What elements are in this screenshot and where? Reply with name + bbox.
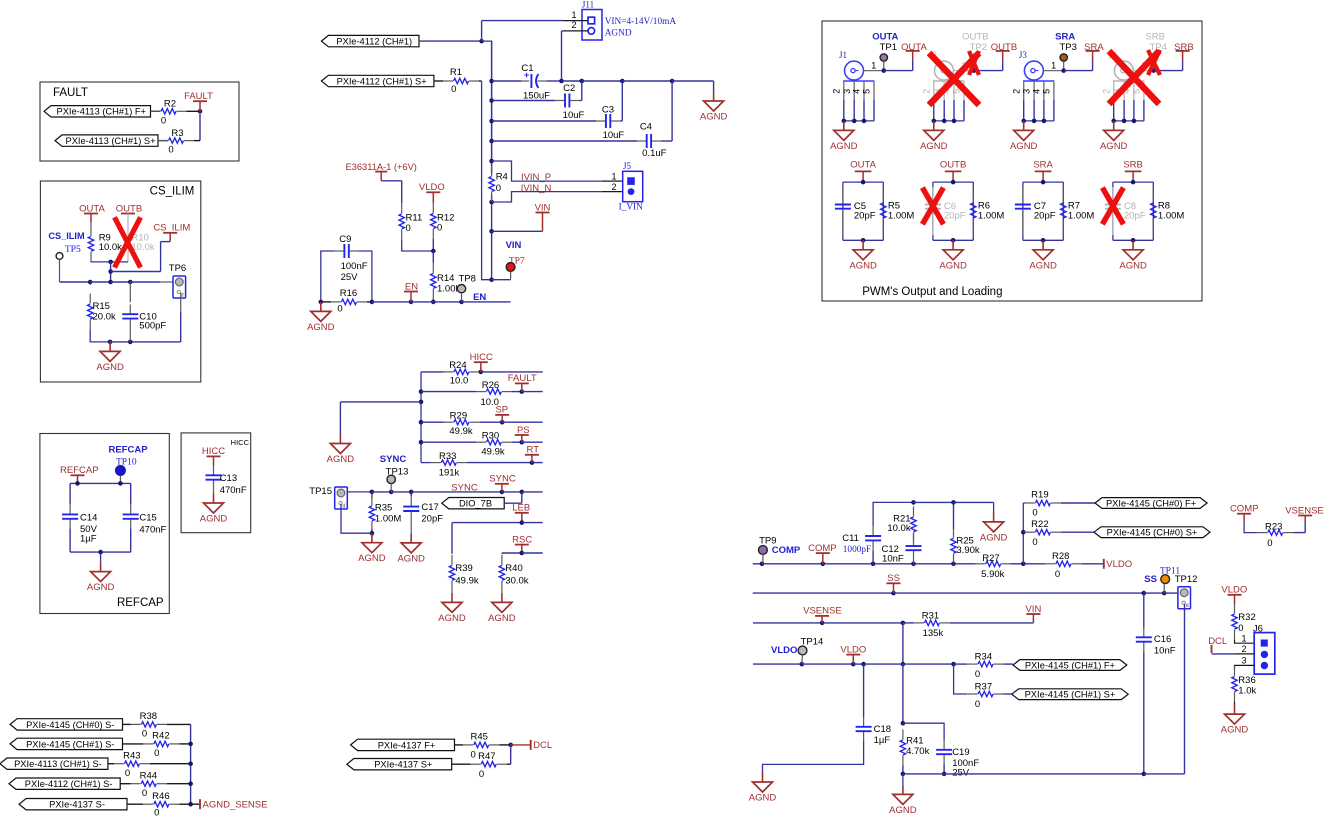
svg-text:C11: C11 xyxy=(842,533,859,544)
svg-text:C18: C18 xyxy=(874,724,891,735)
svg-text:PXIe-4145 (CH#0) S+: PXIe-4145 (CH#0) S+ xyxy=(1107,528,1198,538)
red X (not installed) xyxy=(1109,51,1159,104)
wire xyxy=(90,281,110,283)
svg-text:10nF: 10nF xyxy=(1154,646,1176,657)
wire xyxy=(70,482,131,484)
svg-text:AGND: AGND xyxy=(920,141,948,152)
wire xyxy=(883,61,885,70)
wire xyxy=(179,743,190,745)
junction xyxy=(882,68,887,73)
junction xyxy=(431,249,436,254)
port DCL xyxy=(530,740,532,750)
wire xyxy=(872,550,874,564)
junction xyxy=(520,520,525,525)
ground AGND xyxy=(410,533,412,543)
junction xyxy=(319,300,324,305)
junction xyxy=(1142,772,1147,777)
wire xyxy=(1304,521,1306,533)
wire xyxy=(953,502,955,529)
svg-text:R24: R24 xyxy=(449,360,466,371)
wire xyxy=(127,261,129,263)
wire xyxy=(1061,531,1094,533)
resistor R21 xyxy=(913,506,915,516)
wire xyxy=(123,743,144,745)
wire xyxy=(321,251,335,302)
svg-text:1.00M: 1.00M xyxy=(1068,211,1094,222)
svg-text:C17: C17 xyxy=(421,502,438,513)
wire xyxy=(347,491,372,493)
wire xyxy=(582,80,623,82)
wire xyxy=(179,803,190,805)
svg-text:R33: R33 xyxy=(439,451,456,462)
wire xyxy=(455,744,464,746)
junction xyxy=(419,400,424,405)
junction xyxy=(951,500,956,505)
wire xyxy=(823,563,873,565)
wire xyxy=(579,100,582,102)
junction xyxy=(851,662,856,667)
svg-text:HICC: HICC xyxy=(231,438,250,447)
wire xyxy=(853,663,863,665)
junction xyxy=(188,802,193,807)
svg-text:470nF: 470nF xyxy=(139,524,166,535)
pin 5 J2 xyxy=(963,81,965,100)
svg-text:0: 0 xyxy=(479,769,484,780)
junction xyxy=(1131,238,1136,243)
wire xyxy=(187,110,201,112)
svg-text:R36: R36 xyxy=(1238,675,1255,686)
svg-text:3: 3 xyxy=(1241,655,1246,665)
svg-text:C3: C3 xyxy=(602,104,614,115)
junction xyxy=(459,300,464,305)
resistor R43 xyxy=(114,763,124,765)
ground AGND xyxy=(762,773,764,783)
wire xyxy=(127,803,143,805)
wire xyxy=(130,483,132,504)
wire xyxy=(492,80,522,82)
resistor R29 xyxy=(443,421,453,423)
wire xyxy=(914,563,954,565)
svg-text:PXIe-4113 (CH#1) S-: PXIe-4113 (CH#1) S- xyxy=(14,759,102,769)
junction xyxy=(500,420,505,425)
wire xyxy=(120,783,131,785)
wire xyxy=(123,723,131,725)
svg-text:AGND: AGND xyxy=(200,514,228,525)
wire xyxy=(912,60,914,70)
wire xyxy=(511,744,531,746)
wire xyxy=(371,529,373,533)
svg-text:R44: R44 xyxy=(140,771,157,782)
pin 1 J1 xyxy=(864,70,884,72)
wire xyxy=(1023,563,1045,565)
wire xyxy=(542,213,544,232)
svg-text:PXIe-4145 (CH#0) F+: PXIe-4145 (CH#0) F+ xyxy=(1106,498,1196,508)
junction xyxy=(972,68,977,73)
svg-text:R2: R2 xyxy=(164,98,176,109)
wire xyxy=(1144,773,1185,775)
junction xyxy=(75,481,80,486)
svg-text:3.90k: 3.90k xyxy=(956,545,979,556)
wire xyxy=(522,522,543,524)
red X (not installed) xyxy=(1102,188,1123,225)
ground AGND xyxy=(713,92,715,102)
svg-text:R14: R14 xyxy=(437,273,454,284)
svg-text:10uF: 10uF xyxy=(563,110,585,121)
capacitor C1 (polarized) xyxy=(521,80,529,82)
resistor R1 xyxy=(443,80,453,82)
pin 2 J11 xyxy=(563,30,588,32)
junction xyxy=(1162,591,1167,596)
capacitor C13 xyxy=(213,466,215,476)
wire xyxy=(950,622,1034,624)
junction xyxy=(520,490,525,495)
svg-text:PXIe-4112 (CH#1): PXIe-4112 (CH#1) xyxy=(336,37,412,47)
ground AGND xyxy=(1023,121,1025,130)
svg-text:5: 5 xyxy=(1042,89,1052,94)
wire xyxy=(499,744,511,746)
resistor R37 xyxy=(968,693,978,695)
wire xyxy=(1022,503,1024,564)
junction xyxy=(901,662,906,667)
junction xyxy=(128,340,133,345)
junction xyxy=(419,389,424,394)
wire xyxy=(410,521,412,534)
svg-text:1.00M: 1.00M xyxy=(888,211,914,222)
junction xyxy=(108,260,113,265)
ground AGND xyxy=(993,502,995,512)
wire xyxy=(452,763,471,765)
wire xyxy=(893,583,895,593)
wire xyxy=(1164,592,1178,594)
junction xyxy=(951,238,956,243)
wire xyxy=(371,492,373,498)
svg-text:PXIe-4137 S+: PXIe-4137 S+ xyxy=(374,760,432,770)
ground AGND xyxy=(371,533,373,543)
svg-text:J11: J11 xyxy=(582,0,594,10)
wire xyxy=(199,111,201,140)
svg-text:AGND: AGND xyxy=(327,454,355,465)
wire xyxy=(401,181,403,204)
svg-text:R41: R41 xyxy=(906,736,923,747)
ground AGND xyxy=(843,121,845,130)
svg-text:0: 0 xyxy=(154,748,159,759)
svg-text:5: 5 xyxy=(1132,89,1142,94)
wire xyxy=(510,745,512,764)
svg-text:REFCAP: REFCAP xyxy=(108,445,148,456)
svg-text:20pF: 20pF xyxy=(1124,211,1146,222)
off-page connector PXIe-4113 (CH#1) S+ xyxy=(55,135,158,146)
wire xyxy=(481,371,543,373)
wire xyxy=(894,592,1144,594)
svg-text:SRB: SRB xyxy=(1145,32,1165,43)
junction xyxy=(1041,180,1046,185)
wire xyxy=(602,180,623,182)
wire xyxy=(562,80,582,82)
svg-text:C1: C1 xyxy=(521,63,533,74)
svg-text:VIN=4-14V/10mA: VIN=4-14V/10mA xyxy=(605,17,677,27)
svg-text:3: 3 xyxy=(842,89,852,94)
svg-text:R23: R23 xyxy=(1265,522,1282,533)
junction xyxy=(1041,238,1046,243)
svg-text:VIN: VIN xyxy=(506,240,522,251)
red X (not installed) xyxy=(1148,50,1160,75)
wire xyxy=(852,655,854,665)
wire xyxy=(1153,61,1155,70)
pin 5 J4 xyxy=(1143,81,1145,100)
wire xyxy=(1092,60,1094,70)
svg-text:R46: R46 xyxy=(152,791,169,802)
resistor R28 xyxy=(1045,563,1055,565)
junction xyxy=(409,300,414,305)
resistor R30 xyxy=(476,441,486,443)
wire xyxy=(1063,61,1065,70)
block border HICC xyxy=(181,433,251,533)
capacitor C3 xyxy=(596,120,606,122)
svg-text:R4: R4 xyxy=(496,172,508,183)
svg-text:AGND: AGND xyxy=(605,28,632,38)
off-page connector DIO_7B xyxy=(442,498,504,509)
svg-text:0: 0 xyxy=(337,304,342,315)
svg-text:IVIN_N: IVIN_N xyxy=(521,183,552,194)
off-page connector PXIe-4137 S+ xyxy=(347,759,452,770)
pin 1 J4 xyxy=(1133,70,1153,72)
wire xyxy=(873,502,913,526)
wire xyxy=(944,773,1144,775)
svg-text:191k: 191k xyxy=(439,468,460,479)
wire xyxy=(1023,531,1025,533)
svg-text:1.0k: 1.0k xyxy=(1238,686,1256,697)
ground AGND xyxy=(339,434,341,444)
svg-text:OUTB: OUTB xyxy=(940,160,966,171)
svg-text:C15: C15 xyxy=(139,512,156,523)
resistor R6 xyxy=(972,187,974,202)
wire xyxy=(411,491,502,493)
resistor R22 xyxy=(1025,531,1035,533)
wire xyxy=(160,281,176,283)
wire xyxy=(903,663,954,665)
wire xyxy=(581,81,583,101)
svg-text:AGND: AGND xyxy=(1010,141,1038,152)
svg-text:R1: R1 xyxy=(450,67,462,78)
wire xyxy=(502,491,522,493)
svg-text:PXIe-4112 (CH#1) S+: PXIe-4112 (CH#1) S+ xyxy=(337,76,427,86)
svg-text:R28: R28 xyxy=(1052,551,1069,562)
wire xyxy=(479,421,502,423)
resistor R39 xyxy=(451,555,453,565)
svg-text:AGND: AGND xyxy=(1119,260,1147,271)
svg-text:100nF: 100nF xyxy=(341,261,368,272)
svg-text:DCL: DCL xyxy=(533,740,552,751)
wire xyxy=(1235,665,1255,669)
wire xyxy=(434,80,443,82)
wire xyxy=(562,30,564,32)
svg-text:AGND: AGND xyxy=(700,112,728,123)
resistor R15 xyxy=(89,294,91,304)
wire xyxy=(1234,595,1236,605)
wire xyxy=(903,622,914,624)
svg-text:AGND: AGND xyxy=(438,613,466,624)
wire xyxy=(762,554,764,563)
resistor R35 xyxy=(371,495,373,505)
junction xyxy=(580,79,585,84)
block border CS_ILIM xyxy=(40,181,200,382)
wire xyxy=(391,491,411,493)
wire xyxy=(1163,584,1165,594)
svg-text:0: 0 xyxy=(1267,538,1272,549)
wire xyxy=(522,441,543,443)
junction xyxy=(1021,562,1026,567)
junction xyxy=(800,662,805,667)
svg-text:PXIe-4113 (CH#1) F+: PXIe-4113 (CH#1) F+ xyxy=(57,107,146,117)
wire xyxy=(421,441,476,443)
svg-text:3: 3 xyxy=(1022,89,1032,94)
wire xyxy=(89,282,91,285)
wire xyxy=(753,622,822,624)
svg-text:0: 0 xyxy=(471,750,476,761)
off-page connector PXIe-4145 (CH#0) S- xyxy=(10,719,122,730)
wire xyxy=(671,81,673,141)
junction xyxy=(760,562,765,567)
capacitor C4 xyxy=(637,140,647,142)
resistor R12 xyxy=(432,203,434,213)
junction xyxy=(820,621,825,626)
svg-text:PXIe-4137 S-: PXIe-4137 S- xyxy=(49,800,105,810)
wire xyxy=(954,663,968,665)
off-page connector PXIe-4113 (CH#1) S- xyxy=(0,758,108,769)
wire xyxy=(762,563,823,565)
svg-text:AGND: AGND xyxy=(749,793,777,804)
svg-text:PXIe-4145 (CH#1) F+: PXIe-4145 (CH#1) F+ xyxy=(1025,660,1115,670)
wire xyxy=(180,312,182,342)
svg-text:0: 0 xyxy=(437,223,442,234)
junction xyxy=(951,180,956,185)
svg-text:AGND: AGND xyxy=(96,362,124,373)
wire xyxy=(1144,592,1164,594)
svg-text:1: 1 xyxy=(611,172,616,182)
wire xyxy=(512,391,522,393)
wire xyxy=(902,766,904,774)
svg-text:2: 2 xyxy=(921,89,931,94)
resistor R44 xyxy=(131,783,141,785)
wire loop xyxy=(933,181,973,183)
junction xyxy=(1061,68,1066,73)
junction xyxy=(1131,180,1136,185)
svg-text:PXIe-4137 F+: PXIe-4137 F+ xyxy=(378,740,436,750)
wire xyxy=(1002,60,1004,70)
wire xyxy=(169,233,171,242)
wire xyxy=(111,281,131,283)
wire xyxy=(411,301,433,303)
wire xyxy=(1143,593,1145,627)
wire xyxy=(532,462,543,464)
wire xyxy=(802,663,854,665)
wire xyxy=(167,783,191,785)
wire xyxy=(467,462,532,464)
capacitor C12 xyxy=(913,533,915,546)
junction xyxy=(871,562,876,567)
resistor R42 xyxy=(143,743,153,745)
svg-text:30.0k: 30.0k xyxy=(505,576,528,587)
svg-text:PXIe-4145 (CH#0) S-: PXIe-4145 (CH#0) S- xyxy=(26,720,114,730)
wire xyxy=(432,299,434,302)
resistor R33 xyxy=(431,462,441,464)
wire xyxy=(150,763,191,765)
capacitor C10 xyxy=(129,304,131,314)
wire xyxy=(1243,514,1245,521)
wire xyxy=(461,293,463,302)
svg-text:500pF: 500pF xyxy=(139,321,166,332)
svg-text:20.0k: 20.0k xyxy=(93,311,116,322)
wire xyxy=(158,140,168,142)
wire xyxy=(161,241,171,243)
wire xyxy=(119,475,121,483)
svg-text:C19: C19 xyxy=(952,747,969,758)
ground AGND xyxy=(1132,240,1134,250)
wire xyxy=(367,301,372,303)
svg-text:0: 0 xyxy=(1032,508,1037,519)
block border REFCAP xyxy=(40,434,169,614)
svg-text:10.0: 10.0 xyxy=(450,376,469,387)
resistor R10 (not installed) xyxy=(127,214,129,227)
wire xyxy=(479,371,480,373)
junction xyxy=(108,280,113,285)
svg-text:1: 1 xyxy=(871,60,876,70)
pin 5 J1 xyxy=(873,81,875,100)
wire xyxy=(160,242,162,272)
junction xyxy=(911,500,916,505)
svg-text:0: 0 xyxy=(142,788,147,799)
wire xyxy=(822,622,903,624)
capacitor C9 xyxy=(335,250,345,252)
svg-text:C2: C2 xyxy=(563,83,575,94)
wire xyxy=(410,492,412,497)
svg-text:C14: C14 xyxy=(80,512,97,523)
junction xyxy=(1151,68,1156,73)
wire xyxy=(421,371,444,373)
svg-text:0: 0 xyxy=(142,729,147,740)
junction xyxy=(188,761,193,766)
wire xyxy=(504,502,522,504)
off-page connector PXIe-4137 F+ xyxy=(351,739,455,750)
wire xyxy=(1081,563,1103,565)
red X (not installed) xyxy=(922,188,943,225)
wire xyxy=(801,655,804,664)
svg-text:20pF: 20pF xyxy=(1034,211,1056,222)
wire xyxy=(753,663,802,665)
junction xyxy=(901,621,906,626)
wire xyxy=(451,523,453,554)
wire bus to ground xyxy=(1114,120,1144,122)
wire loop xyxy=(1113,181,1153,183)
svg-text:2: 2 xyxy=(611,182,616,192)
wire xyxy=(451,591,453,593)
wire xyxy=(419,40,482,42)
capacitor C17 xyxy=(410,497,412,507)
resistor R14 xyxy=(432,263,434,273)
wire xyxy=(130,529,132,553)
block border FAULT xyxy=(40,82,239,161)
wire xyxy=(522,391,543,393)
resistor R24 xyxy=(443,371,453,373)
junction xyxy=(942,772,947,777)
ground AGND xyxy=(451,593,453,603)
junction xyxy=(891,591,896,596)
pin 4 J1 xyxy=(863,81,865,100)
capacitor C8 (not installed) xyxy=(1112,187,1114,204)
wire bus xyxy=(190,724,192,804)
wire xyxy=(339,402,341,434)
svg-text:0: 0 xyxy=(451,84,456,95)
